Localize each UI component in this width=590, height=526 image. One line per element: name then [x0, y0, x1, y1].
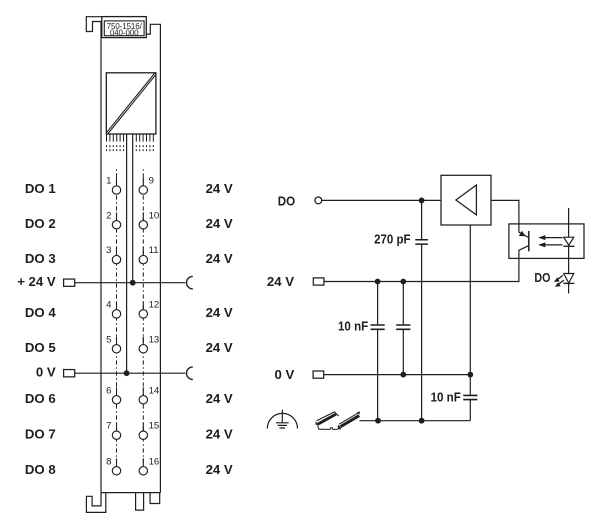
svg-text:10: 10 — [149, 210, 160, 221]
svg-text:5: 5 — [106, 334, 111, 345]
svg-text:DO 5: DO 5 — [25, 340, 56, 355]
svg-text:8: 8 — [106, 456, 111, 467]
svg-text:24 V: 24 V — [267, 274, 294, 289]
svg-text:24 V: 24 V — [206, 181, 233, 196]
svg-text:24 V: 24 V — [206, 305, 233, 320]
svg-text:DO 3: DO 3 — [25, 251, 56, 266]
svg-text:13: 13 — [149, 334, 160, 345]
svg-text:16: 16 — [149, 456, 160, 467]
svg-text:6: 6 — [106, 385, 111, 396]
svg-text:DO 1: DO 1 — [25, 181, 56, 196]
svg-text:0 V: 0 V — [275, 367, 295, 382]
svg-text:0 V: 0 V — [36, 364, 56, 379]
svg-text:4: 4 — [106, 299, 112, 310]
svg-text:10 nF: 10 nF — [338, 319, 368, 334]
svg-text:10 nF: 10 nF — [431, 389, 461, 404]
svg-text:DO 7: DO 7 — [25, 426, 56, 441]
svg-text:270 pF: 270 pF — [374, 231, 411, 246]
svg-text:DO 2: DO 2 — [25, 216, 56, 231]
svg-text:DO 8: DO 8 — [25, 462, 56, 477]
svg-text:9: 9 — [149, 176, 154, 187]
svg-text:14: 14 — [149, 385, 160, 396]
svg-text:24 V: 24 V — [206, 340, 233, 355]
svg-text:24 V: 24 V — [206, 391, 233, 406]
svg-text:7: 7 — [106, 421, 111, 432]
svg-text:24 V: 24 V — [206, 426, 233, 441]
svg-text:2: 2 — [106, 210, 111, 221]
svg-text:12: 12 — [149, 299, 160, 310]
svg-text:15: 15 — [149, 421, 160, 432]
svg-text:040-000: 040-000 — [110, 28, 139, 37]
svg-text:DO 4: DO 4 — [25, 305, 56, 320]
svg-text:DO: DO — [278, 194, 295, 209]
svg-text:24 V: 24 V — [206, 251, 233, 266]
svg-text:24 V: 24 V — [206, 216, 233, 231]
svg-text:+ 24 V: + 24 V — [17, 274, 56, 289]
svg-text:3: 3 — [106, 245, 111, 256]
svg-text:24 V: 24 V — [206, 462, 233, 477]
svg-text:11: 11 — [149, 245, 159, 256]
svg-text:DO: DO — [534, 270, 550, 285]
svg-text:DO 6: DO 6 — [25, 391, 56, 406]
svg-text:1: 1 — [106, 176, 111, 187]
